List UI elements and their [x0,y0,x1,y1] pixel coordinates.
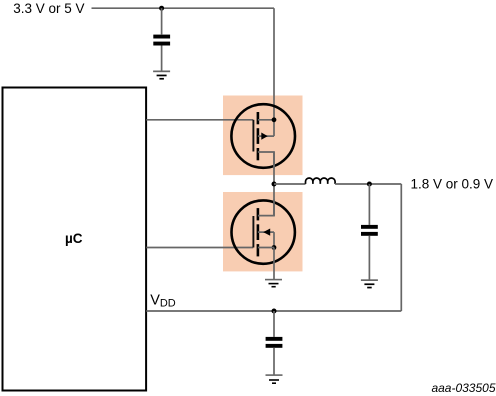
channel dash 1 [257,208,260,220]
node: rail tap junction [159,6,164,11]
gate bar [252,216,254,248]
wire: rail down to PMOS source [273,8,275,120]
wire: gate of Q1 from µC [146,119,253,121]
body tie vertical [273,232,275,247]
channel dash 3 [257,244,260,256]
transistor Q2 (N-channel MOSFET, low side) [232,200,295,264]
channel dash 3 [257,148,260,160]
microcontroller µC box [3,88,147,391]
wire: output cap top lead [368,184,370,225]
wire: output feedback right vertical [400,184,402,311]
capacitor (input decoupling) [153,35,170,46]
wire: VDD cap top lead [273,311,275,337]
wire: 3.3V rail horizontal [92,7,275,9]
svg-text:µC: µC [65,231,83,246]
capacitor (output) [361,225,378,236]
ground (VDD cap) [266,374,283,384]
gate bar [252,120,254,152]
wire: gate of Q2 from µC [146,247,253,249]
drain connector (top) [258,200,274,216]
drain connector (bottom) [258,152,274,169]
body connector with arrow (middle) [258,135,274,137]
body connector with arrow (middle) [258,231,274,233]
wire: Q2 source to ground [273,248,275,281]
svg-text:1.8 V or 0.9 V: 1.8 V or 0.9 V [411,177,494,192]
svg-text:3.3 V or 5 V: 3.3 V or 5 V [13,1,84,16]
ground (Q2 source) [265,279,282,288]
transistor Q1 (P-channel MOSFET, high side) [231,104,295,168]
svg-text:aaa-033505: aaa-033505 [431,381,495,395]
wire: input cap to ground [161,46,163,72]
channel dash 1 [257,112,260,124]
wire: switch node vertical [273,152,275,216]
node: switch node junction [272,182,277,187]
channel dash 2 [257,224,260,240]
node: VDD cap junction [272,309,277,314]
arrow (N-channel, pointing left) [263,229,270,236]
wire: inductor to output corner [335,183,401,185]
arrow (P-channel, pointing right) [261,133,267,140]
wire: switch node to inductor [274,183,306,185]
channel dash 2 [257,128,260,144]
wire: VDD cap to ground [273,348,275,375]
wire: output cap to ground [368,236,370,280]
wire: VDD horizontal [146,310,401,312]
capacitor (VDD decoupling) [266,337,283,348]
inductor L [306,178,336,184]
source connector (top) [258,119,274,121]
body tie vertical [273,120,275,136]
highlight: NMOS orange square [223,192,303,271]
node: output cap junction [367,182,372,187]
ground (input cap) [153,71,170,80]
wire: input cap top lead [161,8,163,34]
source connector (bottom) [258,247,274,249]
body-source dot [272,245,277,250]
body-source dot [272,117,277,122]
highlight: PMOS orange square [223,96,303,176]
ground (output cap) [361,279,378,288]
